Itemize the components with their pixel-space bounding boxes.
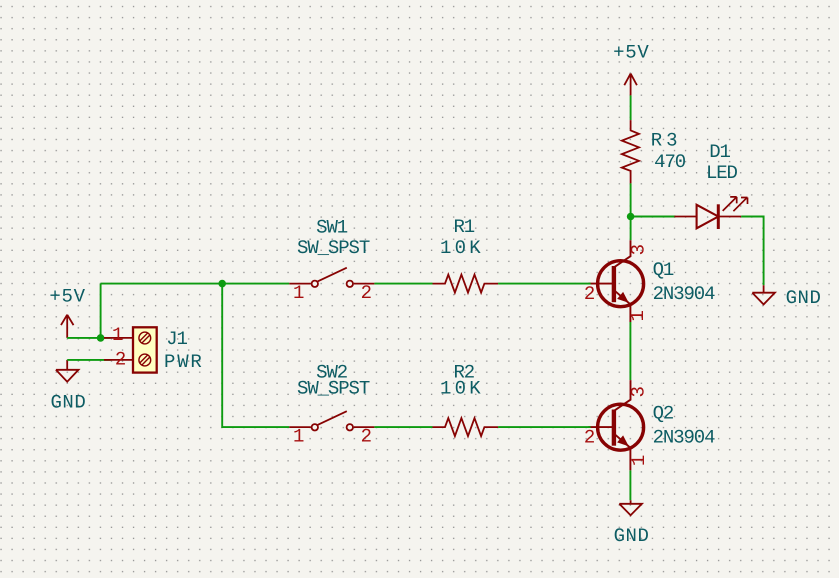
resistor R3: [622, 120, 639, 183]
svg-text:Q1: Q1: [653, 259, 674, 281]
wire R2 to Q2 base: [498, 426, 590, 428]
wire Q1 emitter to Q2 collector: [629, 322, 631, 380]
wire +5V top to R3: [630, 95, 632, 120]
ground right symbol: [752, 285, 775, 304]
svg-text:2: 2: [584, 426, 595, 448]
svg-text:GND: GND: [786, 287, 822, 309]
svg-text:R1: R1: [453, 216, 474, 238]
switch SW2: [289, 411, 374, 430]
svg-text:GND: GND: [614, 525, 650, 547]
ground bottom symbol: [619, 500, 642, 515]
svg-text:2: 2: [361, 282, 372, 304]
wire R1 to Q1 base: [498, 283, 590, 285]
svg-text:2N3904: 2N3904: [653, 283, 716, 305]
wire SW1 to R1: [374, 283, 432, 285]
wire GND left to J1 pin2: [67, 359, 110, 361]
svg-text:2: 2: [361, 425, 372, 447]
svg-text:R3: R3: [651, 129, 682, 151]
svg-text:D1: D1: [709, 141, 730, 163]
power +5V left symbol: [61, 315, 74, 338]
svg-text:+5V: +5V: [613, 41, 649, 63]
wire top rail: [101, 283, 290, 285]
transistor Q1 2N3904: [588, 240, 643, 322]
svg-text:1: 1: [112, 324, 123, 346]
junction at J1 pin1: [97, 334, 105, 342]
diode D1 LED: [674, 197, 747, 229]
svg-text:10K: 10K: [440, 237, 484, 259]
transistor Q2 2N3904: [588, 380, 643, 470]
wire vertical +5V rail: [100, 284, 102, 338]
svg-text:3: 3: [627, 386, 649, 397]
svg-text:PWR: PWR: [164, 351, 204, 373]
connector J1 PWR: [104, 327, 157, 372]
wire node to LED: [631, 216, 676, 218]
svg-text:+5V: +5V: [49, 286, 85, 308]
svg-text:2: 2: [584, 283, 595, 305]
svg-text:3: 3: [627, 244, 649, 255]
switch SW1: [289, 268, 374, 287]
wire node down to Q1 collector: [630, 217, 632, 241]
svg-text:GND: GND: [50, 392, 86, 414]
junction top rail branch: [218, 280, 226, 288]
wire +5V left to J1 pin1: [67, 337, 110, 339]
power +5V top symbol: [624, 74, 637, 96]
svg-text:1: 1: [293, 282, 304, 304]
svg-text:J1: J1: [166, 328, 187, 350]
wire branch down to row2: [222, 284, 289, 428]
svg-text:SW1: SW1: [316, 216, 348, 238]
wire Q2 emitter to GND: [629, 470, 631, 500]
svg-text:SW_SPST: SW_SPST: [297, 237, 370, 259]
svg-text:Q2: Q2: [653, 402, 674, 424]
svg-text:1: 1: [628, 455, 650, 466]
wire R3 to node: [630, 183, 632, 216]
wire LED to GND corner: [741, 217, 763, 286]
wire SW2 to R2: [374, 426, 432, 428]
resistor R2: [433, 418, 499, 436]
svg-text:2N3904: 2N3904: [653, 426, 716, 448]
svg-text:LED: LED: [706, 162, 738, 184]
resistor R1: [433, 275, 499, 293]
junction node at R3/Q1/LED: [627, 213, 635, 221]
svg-text:10K: 10K: [440, 377, 484, 399]
ground left symbol: [56, 360, 79, 382]
svg-text:1: 1: [293, 425, 304, 447]
svg-text:1: 1: [627, 310, 649, 321]
svg-text:SW_SPST: SW_SPST: [297, 377, 370, 399]
svg-text:2: 2: [115, 349, 126, 371]
svg-text:470: 470: [654, 151, 686, 173]
